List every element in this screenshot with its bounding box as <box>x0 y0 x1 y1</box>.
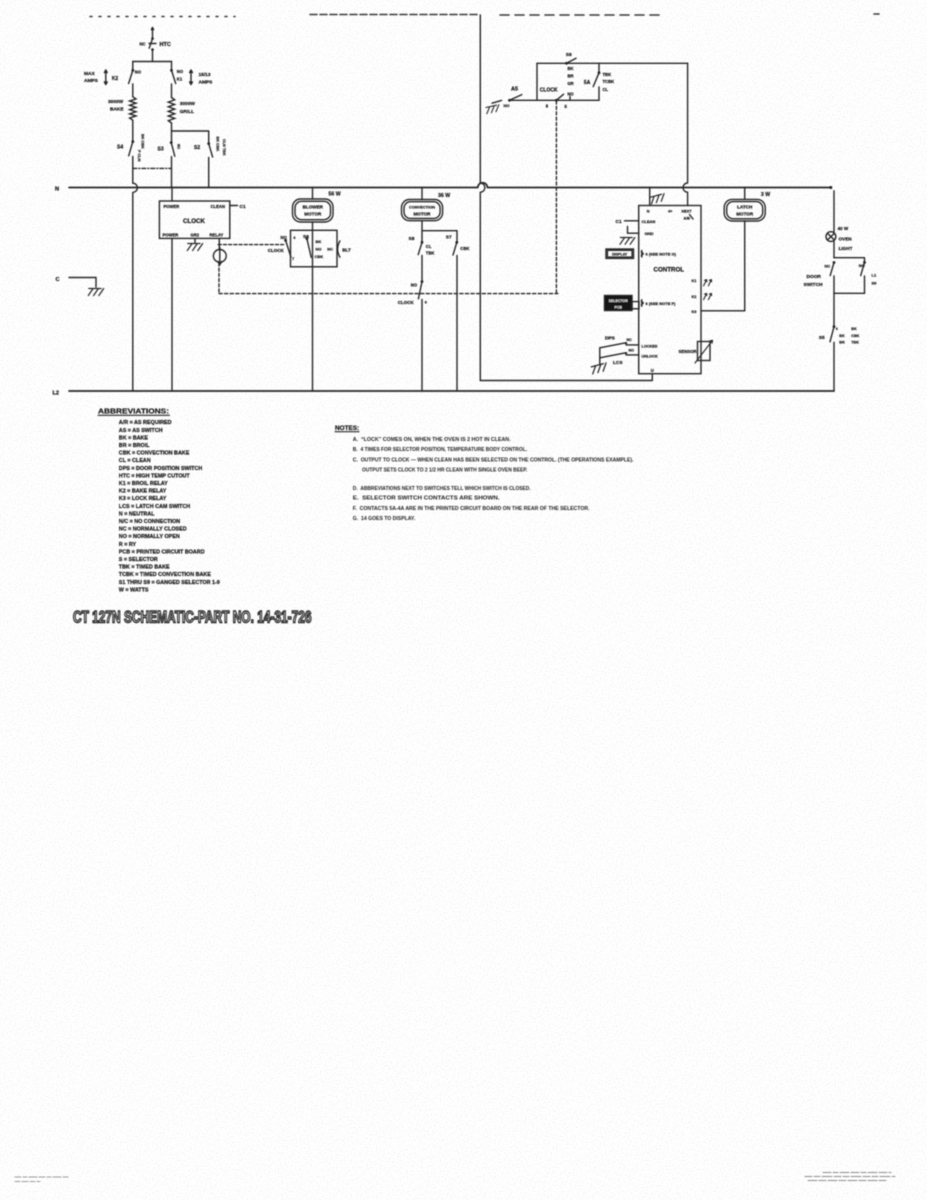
svg-text:S7: S7 <box>446 235 452 241</box>
dashed link relay down <box>218 263 220 294</box>
svg-text:MAX: MAX <box>84 71 95 77</box>
wire to HTC (top lead) <box>151 28 153 38</box>
scan artifact: bottom-left faint text <box>15 1177 68 1182</box>
timer CLOCK box <box>159 201 229 238</box>
blower switch box <box>291 230 338 266</box>
svg-text:L2: L2 <box>53 391 59 397</box>
svg-text:OUTPUT SETS CLOCK TO 2 1/2 HR: OUTPUT SETS CLOCK TO 2 1/2 HR CLEAN WITH… <box>362 468 528 474</box>
svg-text:A5: A5 <box>511 87 518 93</box>
wire motor to switch box <box>312 222 314 230</box>
wire bus N to oven light <box>833 191 835 232</box>
svg-text:3000W: 3000W <box>108 99 124 105</box>
wire door switch to S5 <box>833 293 835 326</box>
svg-text:AMPS: AMPS <box>84 78 99 84</box>
contact clock 8 <box>555 99 558 102</box>
wire clock POWER to L2 <box>171 238 173 391</box>
svg-text:OVEN: OVEN <box>839 236 853 241</box>
wire bus N to convection motor <box>421 188 423 200</box>
svg-text:NC: NC <box>627 338 633 342</box>
ground A5 <box>486 105 501 114</box>
switch A5 <box>508 99 511 102</box>
svg-text:MOTOR: MOTOR <box>304 212 322 217</box>
svg-text:CBK = CONVECTION BAKE: CBK = CONVECTION BAKE <box>119 451 190 457</box>
svg-text:P CLN: P CLN <box>137 150 141 162</box>
contact BLT (right) <box>338 241 340 257</box>
svg-text:CONVECTION: CONVECTION <box>409 204 435 209</box>
svg-text:BK: BK <box>316 239 322 244</box>
svg-text:CLN TBK: CLN TBK <box>222 139 226 156</box>
svg-text:K1 = BROIL RELAY: K1 = BROIL RELAY <box>119 481 168 487</box>
svg-text:S1 THRU S9 = GANGED SELECTOR 1: S1 THRU S9 = GANGED SELECTOR 1-9 <box>119 580 220 586</box>
svg-text:DISPLAY: DISPLAY <box>612 253 628 257</box>
svg-text:SELECTOR: SELECTOR <box>609 299 628 303</box>
svg-text:7: 7 <box>292 257 294 261</box>
svg-text:MOTOR: MOTOR <box>413 211 431 216</box>
rail top of element box <box>133 61 172 63</box>
dashed mechanical bus (long) <box>219 293 558 295</box>
svg-text:NO: NO <box>177 69 184 74</box>
svg-text:N: N <box>55 187 59 193</box>
switch 5A <box>598 63 600 72</box>
mechanical link S4-S3 (dash-dot) <box>133 167 172 169</box>
switch S2 <box>207 142 210 145</box>
svg-text:S5: S5 <box>819 335 825 341</box>
svg-text:CBK: CBK <box>460 246 469 251</box>
svg-text:BK: BK <box>567 66 573 71</box>
svg-text:TCBK: TCBK <box>603 79 615 84</box>
svg-text:BK = BAKE: BK = BAKE <box>119 435 149 441</box>
svg-text:SENSOR: SENSOR <box>679 349 698 354</box>
svg-text:UNLOCK: UNLOCK <box>642 355 658 359</box>
svg-text:U: U <box>651 368 654 373</box>
svg-text:BK: BK <box>851 327 857 331</box>
svg-text:BLT: BLT <box>342 247 351 252</box>
svg-text:C1: C1 <box>240 204 246 210</box>
scan artifact: bottom-right faint text <box>805 1173 895 1181</box>
svg-text:A. “LOCK” COMES ON, WHEN THE: A. “LOCK” COMES ON, WHEN THE OVEN IS 2 H… <box>353 437 511 443</box>
svg-text:N: N <box>647 210 650 214</box>
svg-text:TBK: TBK <box>426 251 435 256</box>
svg-text:NO: NO <box>859 263 865 268</box>
svg-text:CBK: CBK <box>851 334 859 338</box>
svg-text:K3 = LOCK RELAY: K3 = LOCK RELAY <box>119 496 167 502</box>
svg-text:CLEAN: CLEAN <box>211 204 225 209</box>
wire S4 branch hops bus N, to L2 <box>133 183 138 391</box>
svg-text:NC: NC <box>327 247 333 252</box>
svg-text:LCS: LCS <box>613 360 623 366</box>
contact clock->convection (NO) <box>421 280 424 283</box>
svg-text:LOCKED: LOCKED <box>642 345 658 349</box>
svg-text:CLOCK: CLOCK <box>183 218 206 225</box>
svg-text:S9: S9 <box>872 281 878 286</box>
svg-text:BR = BROIL: BR = BROIL <box>119 443 150 449</box>
svg-text:6 (SEE NOTE G): 6 (SEE NOTE G) <box>646 252 677 257</box>
svg-text:RELAY: RELAY <box>210 233 224 238</box>
wire latch motor to K3 <box>744 221 746 311</box>
svg-text:BK CBK: BK CBK <box>216 137 220 152</box>
wire lamp to door switch <box>833 242 835 258</box>
wire clock left riser <box>536 63 538 100</box>
door switch parallel branch <box>834 258 865 262</box>
svg-text:S = SELECTOR: S = SELECTOR <box>119 557 158 563</box>
svg-text:TCBK = TIMED CONVECTION BAKE: TCBK = TIMED CONVECTION BAKE <box>119 572 211 578</box>
selector pcb <box>605 296 633 311</box>
ground DPS <box>599 358 601 364</box>
svg-text:3 W: 3 W <box>761 192 770 198</box>
svg-text:TBK = TIMED BAKE: TBK = TIMED BAKE <box>119 565 170 571</box>
element: broil 3000W <box>168 98 174 124</box>
svg-text:LCS = LATCH CAM SWITCH: LCS = LATCH CAM SWITCH <box>119 504 190 510</box>
svg-text:NO: NO <box>629 348 635 352</box>
svg-text:BAKE: BAKE <box>110 107 124 113</box>
wire bus N to clock POWER <box>171 188 173 202</box>
svg-text:CLEAN: CLEAN <box>642 219 656 224</box>
svg-text:K2: K2 <box>692 295 697 299</box>
svg-text:BR: BR <box>567 74 573 79</box>
svg-text:CLOCK: CLOCK <box>268 248 285 253</box>
svg-text:GR2: GR2 <box>191 233 200 238</box>
thermal cutout HTC <box>151 37 154 40</box>
svg-text:NOTES:: NOTES: <box>335 425 359 432</box>
scan artifact: top dashed edge <box>90 14 879 17</box>
svg-text:56 W: 56 W <box>329 192 341 198</box>
svg-text:A/R = AS REQUIRED: A/R = AS REQUIRED <box>119 420 172 426</box>
ground clock GR2 <box>194 238 196 242</box>
wire motor down with tee <box>422 221 457 242</box>
svg-text:K3: K3 <box>692 310 697 314</box>
svg-text:CL: CL <box>603 87 609 92</box>
relay contact K2 (NO) <box>132 62 134 70</box>
svg-text:NC: NC <box>177 144 181 150</box>
svg-text:NO: NO <box>316 247 322 252</box>
svg-text:GND: GND <box>645 231 654 236</box>
wire bus N to latch motor <box>744 188 746 200</box>
svg-text:3000W: 3000W <box>180 101 196 107</box>
svg-text:W = WATTS: W = WATTS <box>119 587 149 593</box>
svg-text:S3: S3 <box>158 147 164 153</box>
svg-text:DOOR: DOOR <box>807 274 822 280</box>
svg-text:C: C <box>56 277 60 283</box>
svg-text:BK: BK <box>839 334 845 338</box>
lamp oven light <box>826 232 836 242</box>
svg-text:S4: S4 <box>117 145 123 151</box>
svg-text:DPS: DPS <box>605 335 616 341</box>
node C1 stub <box>230 205 238 207</box>
ground control top <box>650 194 666 204</box>
svg-text:HTC: HTC <box>160 42 171 48</box>
wire rail to control (hops bus N) <box>683 63 688 205</box>
svg-text:GRILL: GRILL <box>180 109 194 115</box>
svg-text:AMPS: AMPS <box>199 80 214 86</box>
svg-text:NO: NO <box>411 283 418 288</box>
svg-text:NO = NORMALLY OPEN: NO = NORMALLY OPEN <box>119 534 180 540</box>
svg-text:POWER: POWER <box>164 204 180 209</box>
wire blower switch to L2 <box>312 230 314 391</box>
wire clock row <box>510 99 600 101</box>
relay coil (clock relay) <box>218 238 220 249</box>
svg-text:D. ABBREVIATIONS NEXT TO SWIT: D. ABBREVIATIONS NEXT TO SWITCHES TELL W… <box>353 486 531 492</box>
svg-text:BR: BR <box>839 340 845 344</box>
svg-text:4: 4 <box>836 327 838 331</box>
svg-text:N = NEUTRAL: N = NEUTRAL <box>119 511 155 517</box>
svg-text:DPS = DOOR POSITION SWITCH: DPS = DOOR POSITION SWITCH <box>119 466 203 472</box>
svg-text:ABBREVIATIONS:: ABBREVIATIONS: <box>98 409 169 416</box>
svg-text:NC = NORMALLY CLOSED: NC = NORMALLY CLOSED <box>119 527 187 533</box>
svg-text:AS = AS SWITCH: AS = AS SWITCH <box>119 428 163 434</box>
svg-text:K1: K1 <box>177 77 183 82</box>
door switch NC contact <box>833 261 836 264</box>
svg-text:F. CONTACTS 5A-4A ARE IN THE: F. CONTACTS 5A-4A ARE IN THE PRINTED CIR… <box>353 506 590 512</box>
svg-text:S8: S8 <box>566 52 572 58</box>
contact S6 arm <box>306 237 309 240</box>
svg-text:A/B: A/B <box>684 217 691 221</box>
svg-text:TBK: TBK <box>851 340 859 344</box>
svg-text:POWER: POWER <box>163 233 179 238</box>
riser wire from top artifact line, hops bus N <box>480 15 485 381</box>
svg-text:NC: NC <box>140 42 146 47</box>
svg-text:E. SELECTOR SWITCH CONTACTS A: E. SELECTOR SWITCH CONTACTS ARE SHOWN. <box>353 496 500 502</box>
svg-text:R = RY: R = RY <box>119 542 137 548</box>
svg-text:PCB = PRINTED CIRCUIT BOARD: PCB = PRINTED CIRCUIT BOARD <box>119 549 205 555</box>
svg-text:C1: C1 <box>616 219 622 225</box>
svg-text:CLOCK: CLOCK <box>398 300 415 305</box>
dashed clock riser <box>555 101 557 294</box>
svg-text:BLOWER: BLOWER <box>303 205 324 210</box>
svg-text:CL = CLEAN: CL = CLEAN <box>119 458 151 464</box>
svg-text:K2 = BAKE RELAY: K2 = BAKE RELAY <box>119 489 167 495</box>
svg-text:K1: K1 <box>692 279 697 283</box>
svg-text:NC: NC <box>825 263 831 268</box>
svg-text:B. 4 TIMES FOR SELECTOR POSIT: B. 4 TIMES FOR SELECTOR POSITION, TEMPER… <box>353 447 528 453</box>
svg-text:5A: 5A <box>584 80 591 86</box>
svg-text:NO: NO <box>504 103 510 108</box>
svg-text:G. 14 GOES TO DISPLAY.: G. 14 GOES TO DISPLAY. <box>353 516 416 522</box>
svg-text:GR: GR <box>567 81 573 86</box>
blower motor <box>293 199 334 222</box>
svg-text:PCB: PCB <box>615 305 623 309</box>
svg-text:NO: NO <box>567 92 574 97</box>
controller CONTROL box <box>639 206 701 374</box>
dashed link relay to blower clock contact <box>218 244 283 246</box>
relay contact K1 (NO) <box>171 62 173 70</box>
svg-text:LIGHT: LIGHT <box>839 246 853 251</box>
svg-text:BK CBK: BK CBK <box>141 134 145 149</box>
svg-text:CT 127N SCHEMATIC-PART NO. 14-: CT 127N SCHEMATIC-PART NO. 14-31-726 <box>73 609 312 627</box>
latch motor <box>724 199 765 221</box>
convection motor <box>402 200 443 221</box>
svg-text:NO: NO <box>135 70 142 75</box>
switch S5 <box>833 325 836 328</box>
svg-text:LATCH: LATCH <box>737 204 753 209</box>
svg-text:N/C = NO CONNECTION: N/C = NO CONNECTION <box>119 519 180 525</box>
wire jog to S2 <box>172 123 209 143</box>
svg-text:C. OUTPUT TO CLOCK — WHEN CLE: C. OUTPUT TO CLOCK — WHEN CLEAN HAS BEEN… <box>353 458 634 464</box>
svg-text:S2: S2 <box>194 145 200 151</box>
svg-text:CL: CL <box>426 244 432 249</box>
svg-text:NO: NO <box>281 235 288 240</box>
svg-text:L1: L1 <box>872 272 877 277</box>
display unit <box>606 249 634 258</box>
svg-text:K2: K2 <box>112 76 119 82</box>
svg-text:MOTOR: MOTOR <box>736 211 754 216</box>
svg-text:SWITCH: SWITCH <box>804 282 823 288</box>
svg-text:CONTROL: CONTROL <box>654 267 685 274</box>
svg-text:CLOCK: CLOCK <box>540 87 558 93</box>
wire bus N to blower motor <box>312 188 314 200</box>
switch S4 <box>131 140 134 143</box>
switch S3 <box>171 131 173 142</box>
svg-text:40 W: 40 W <box>838 226 849 231</box>
svg-text:TBK: TBK <box>603 72 612 77</box>
rail clock top <box>537 62 688 64</box>
wire bus N to control <box>649 188 651 206</box>
svg-text:6 (SEE NOTE F): 6 (SEE NOTE F) <box>646 301 676 306</box>
svg-text:36 W: 36 W <box>438 193 450 199</box>
svg-text:6: 6 <box>425 301 427 305</box>
svg-text:S8: S8 <box>409 236 415 242</box>
wire riser to control terminal U <box>480 374 652 381</box>
svg-text:NEXT: NEXT <box>682 210 693 214</box>
svg-text:CBK: CBK <box>315 254 324 259</box>
svg-text:15/13: 15/13 <box>199 72 211 78</box>
element: bake 3000W <box>130 97 136 120</box>
svg-text:HTC = HIGH TEMP CUTOUT: HTC = HIGH TEMP CUTOUT <box>119 473 191 479</box>
